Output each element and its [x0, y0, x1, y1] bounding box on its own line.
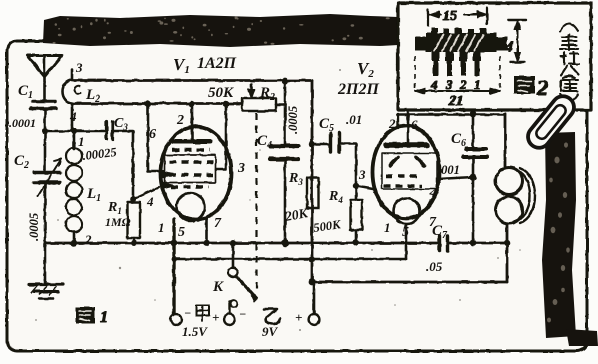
switch K stub: [232, 243, 235, 267]
capacitor C7: [440, 236, 448, 251]
potentiometer R2: [242, 98, 276, 111]
vertical caption unit-mm: [560, 24, 579, 102]
svg-text:+: +: [295, 310, 302, 325]
battery terminal T2 with plug stub: [228, 301, 230, 313]
KANJI: [76, 305, 280, 326]
svg-text:1МΩ: 1МΩ: [105, 215, 131, 229]
node A junction: [42, 128, 48, 134]
svg-text:6: 6: [411, 117, 418, 132]
svg-text:2: 2: [388, 116, 396, 131]
svg-text:1: 1: [100, 309, 108, 326]
svg-text:.05: .05: [426, 259, 443, 274]
svg-text:1.5V: 1.5V: [182, 324, 208, 339]
junction L1 top: [71, 128, 77, 134]
rail 1 junction dots: [71, 240, 77, 246]
svg-text:.01: .01: [346, 112, 362, 127]
junction C5 tap: [309, 141, 315, 147]
tube pins: [432, 52, 482, 76]
capacitor C2 variable: [34, 171, 60, 174]
scan flecks: [35, 59, 521, 331]
junction V2 grid node: [353, 183, 359, 189]
svg-text:.0005: .0005: [27, 213, 41, 241]
glyph yi (battery B): [264, 309, 280, 324]
V1 pin7 lead: [205, 218, 208, 243]
tube V1 envelope: [161, 127, 232, 220]
battery terminal T3: [313, 284, 316, 313]
tube V2 envelope: [373, 126, 440, 219]
svg-text:1: 1: [474, 77, 481, 92]
wire grid diagonal into V1: [135, 187, 159, 198]
svg-text:9V: 9V: [262, 324, 279, 339]
junction C4 top: [282, 78, 289, 85]
wire C2 to bottom rail: [44, 184, 47, 243]
svg-text:6: 6: [149, 127, 156, 142]
L2 hook: [74, 86, 80, 94]
dimension 4: [508, 20, 526, 62]
svg-text:.0005: .0005: [286, 106, 300, 134]
junction grid node: [130, 196, 136, 202]
wire C4 to rail: [284, 161, 287, 243]
svg-text:1: 1: [384, 220, 391, 235]
svg-text:1: 1: [78, 134, 85, 149]
wire rail to ground: [44, 243, 47, 284]
V2 filament: [394, 198, 420, 224]
svg-text:1: 1: [158, 220, 165, 235]
capacitor C6: [466, 147, 486, 151]
wire C3 to grid node: [113, 131, 133, 199]
wire C6 to rail: [472, 159, 475, 243]
wire top feedback line corner: [311, 81, 314, 282]
svg-text:3: 3: [445, 77, 453, 92]
inset box figure 2: [398, 3, 591, 110]
bottom rail 1: [45, 242, 437, 245]
switch K lever: [236, 276, 256, 298]
figure label tu-2: [514, 76, 535, 94]
svg-text:1А2П: 1А2П: [197, 55, 237, 72]
wire C1 to node: [44, 111, 47, 132]
scan strip right: [542, 132, 576, 338]
svg-text:.0001: .0001: [9, 116, 36, 130]
top grid bus junction dots: [145, 101, 151, 107]
svg-text:4: 4: [504, 39, 513, 56]
L2 pin 4 stub: [71, 104, 74, 131]
V2 pin2 stub: [397, 114, 399, 128]
svg-text:7: 7: [214, 216, 222, 231]
svg-text:2: 2: [536, 75, 548, 100]
V1 pin3 wire: [216, 104, 226, 169]
wire grid to V2: [356, 186, 373, 189]
V2 inner box: [382, 153, 437, 189]
wire pin6 V1: [148, 104, 163, 171]
svg-text:3: 3: [358, 167, 366, 182]
resistor R3: [307, 178, 319, 208]
svg-text:2: 2: [459, 77, 467, 92]
antenna: [27, 56, 62, 77]
headphones lead bottom: [506, 224, 509, 244]
ground: [29, 283, 63, 286]
resistor R4: [355, 189, 358, 200]
coil L2 ferrite rod box: [63, 80, 73, 103]
V1 pin5 lead to battery: [172, 219, 175, 320]
wire C2 branch: [44, 131, 47, 170]
dimension 21: [415, 56, 500, 88]
B+ rail 3: [312, 281, 507, 284]
tube body top view: [431, 28, 438, 34]
svg-text:15: 15: [443, 9, 457, 24]
capacitor C1: [33, 100, 55, 104]
wire V2 filament lead: [405, 224, 408, 259]
svg-text:3: 3: [75, 60, 83, 75]
wire C4 vertical: [284, 81, 287, 144]
capacitor C3: [107, 122, 113, 139]
svg-text:2: 2: [84, 232, 92, 247]
V2 grid dashes: [386, 174, 420, 177]
svg-text:4: 4: [430, 77, 438, 92]
junction C6 bottom: [470, 174, 477, 181]
wire C6 drop: [472, 114, 475, 147]
svg-text:5: 5: [178, 225, 185, 240]
scan band top: [43, 14, 398, 47]
glyph jia (battery A): [196, 305, 209, 316]
svg-text:−: −: [184, 306, 191, 320]
L2 pin 3 stub: [71, 70, 74, 79]
mechanical link dashed R2-K: [255, 113, 257, 295]
junction C6 top: [470, 111, 477, 118]
svg-text:2П2П: 2П2П: [337, 81, 379, 98]
capacitor C5: [312, 143, 328, 146]
svg-text:4: 4: [146, 194, 154, 209]
V2 plate top wire: [397, 113, 505, 116]
svg-text:4: 4: [69, 109, 77, 124]
V1 filament: [177, 193, 205, 221]
capacitor C4: [270, 144, 298, 148]
coil L1: [73, 131, 76, 149]
headphones: [496, 168, 523, 195]
dimension 15: [428, 8, 487, 26]
svg-text:+: +: [212, 310, 219, 325]
svg-text:5: 5: [402, 225, 409, 240]
filament rail 2: [174, 258, 406, 261]
battery terminal T1: [171, 314, 182, 325]
switch K pivot: [228, 267, 237, 276]
svg-text:.001: .001: [438, 163, 460, 177]
wire rail1 end to rail3: [506, 243, 509, 282]
svg-text:21: 21: [448, 94, 463, 109]
paperclip: [524, 92, 579, 152]
wire V2 pin4: [438, 177, 473, 179]
headphones lead top: [504, 114, 507, 167]
resistor R1: [132, 199, 135, 202]
V2 plate: [407, 106, 410, 142]
V1 grids dashes: [172, 148, 210, 151]
V1 plate: [191, 104, 194, 139]
V1 inner grid box: [165, 155, 216, 183]
wire node to C3: [45, 130, 104, 133]
V2 screen ticks: [390, 157, 398, 166]
svg-text:−: −: [239, 307, 246, 321]
figure label tu-1: [76, 307, 95, 324]
svg-text:2: 2: [176, 113, 184, 128]
grid arrows V1: [161, 172, 174, 178]
svg-text:3: 3: [237, 161, 245, 176]
svg-text:50К: 50К: [208, 85, 234, 101]
svg-text:K: K: [212, 279, 224, 295]
